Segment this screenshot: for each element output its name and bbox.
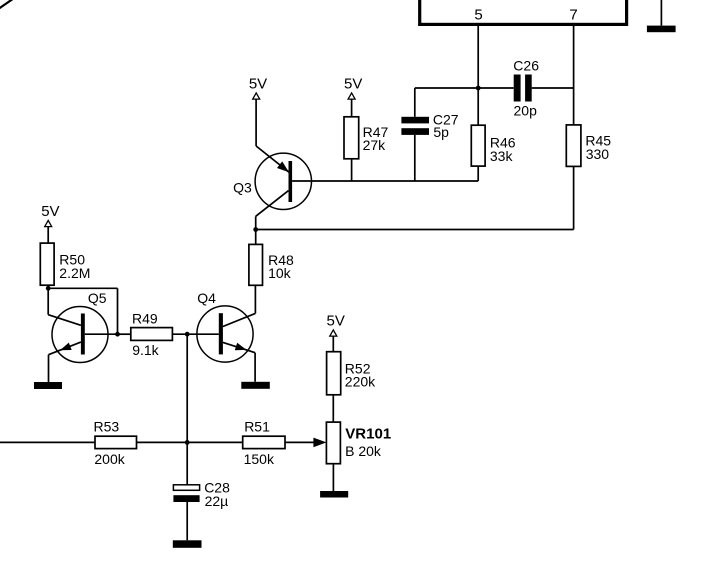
svg-text:200k: 200k	[94, 451, 125, 467]
svg-text:9.1k: 9.1k	[132, 342, 159, 358]
wire node E down to bottom net	[186, 334, 188, 442]
svg-text:330: 330	[586, 146, 610, 162]
wire R48 to Q4 collector	[254, 285, 256, 313]
transistor Q5	[52, 307, 108, 363]
svg-text:R51: R51	[244, 419, 270, 435]
svg-text:220k: 220k	[345, 374, 376, 390]
node A junction	[476, 86, 481, 91]
wiper arrow	[313, 438, 326, 448]
svg-text:Q3: Q3	[233, 180, 252, 196]
svg-text:VR101: VR101	[345, 426, 391, 443]
node C junction (R50 bottom)	[46, 286, 51, 291]
svg-text:R53: R53	[94, 419, 120, 435]
wire left input to R53	[0, 441, 95, 443]
IC U (top, partially off-screen)	[420, 0, 627, 24]
svg-text:7: 7	[569, 7, 577, 24]
wire 5V to R52	[332, 337, 334, 352]
transistor Q4	[197, 306, 253, 362]
svg-text:Q5: Q5	[88, 290, 107, 306]
svg-text:150k: 150k	[244, 451, 275, 467]
ground (C28)	[173, 540, 202, 548]
wire R50 bottom	[47, 285, 49, 288]
wire Q3 base net	[292, 180, 478, 182]
transistor Q3	[255, 153, 311, 209]
resistor R48	[249, 244, 263, 285]
node F junction (bottom net)	[185, 440, 190, 445]
svg-text:C26: C26	[513, 57, 539, 73]
wire node D to R49	[118, 333, 131, 335]
wire 5V to R50	[47, 227, 49, 243]
svg-text:20p: 20p	[514, 102, 538, 118]
svg-text:Q4: Q4	[197, 290, 216, 306]
resistor R53	[95, 436, 137, 448]
wire R51 to VR101 wiper	[285, 441, 314, 443]
node D junction (Q5 base / R49 left)	[115, 332, 120, 337]
svg-text:5V: 5V	[41, 203, 59, 220]
resistor R45	[566, 125, 581, 166]
svg-text:5V: 5V	[249, 76, 267, 93]
wire R53 to R51	[137, 441, 243, 443]
ground (VR101)	[320, 491, 348, 498]
svg-text:10k: 10k	[268, 265, 292, 281]
potentiometer VR101	[326, 422, 340, 464]
wire pin5 to node A	[477, 26, 479, 125]
wire node C to Q5 base loop	[48, 287, 117, 289]
svg-text:5: 5	[474, 7, 482, 24]
wire C26 left	[415, 87, 514, 89]
ground (Q4)	[241, 382, 269, 389]
resistor R49	[131, 328, 173, 341]
wire R47 to base net	[351, 159, 353, 181]
node B junction (Q3 collector)	[253, 227, 258, 232]
wire collector net	[256, 229, 574, 231]
svg-text:22µ: 22µ	[205, 493, 229, 509]
svg-text:B 20k: B 20k	[345, 443, 382, 459]
svg-text:5V: 5V	[344, 76, 362, 93]
ground (top right)	[660, 0, 662, 26]
arc fragment top-left corner	[0, 0, 14, 9]
wire node B to R48	[255, 230, 257, 245]
svg-text:5p: 5p	[433, 124, 449, 140]
wire R46 bottom	[477, 166, 479, 181]
resistor R46	[471, 125, 485, 166]
wire 5V to R47	[351, 100, 353, 117]
capacitor C27	[414, 88, 416, 117]
wire pin7 to R45	[573, 26, 575, 125]
capacitor C26	[514, 75, 521, 102]
resistor R50	[40, 243, 54, 285]
resistor R52	[327, 352, 341, 395]
resistor R51	[243, 436, 285, 448]
ground (Q5)	[34, 382, 62, 389]
svg-text:R49: R49	[132, 311, 158, 327]
resistor R47	[344, 117, 359, 159]
svg-text:33k: 33k	[490, 148, 514, 164]
node E junction (Q4 base / R49 right)	[185, 332, 190, 337]
capacitor C28 (electrolytic)	[186, 442, 188, 484]
svg-text:5V: 5V	[327, 312, 345, 329]
wire Q5 base	[85, 333, 118, 335]
wire R45 bottom to collector net	[573, 166, 575, 229]
wire VR101 to ground	[332, 464, 334, 491]
wire R49 to Q4 base	[172, 333, 218, 335]
wire R52 to VR101	[332, 395, 334, 422]
wire 5V to Q3 emitter	[255, 100, 257, 147]
wire C26 right	[532, 87, 574, 89]
svg-text:27k: 27k	[363, 137, 387, 153]
svg-text:2.2M: 2.2M	[59, 265, 90, 281]
